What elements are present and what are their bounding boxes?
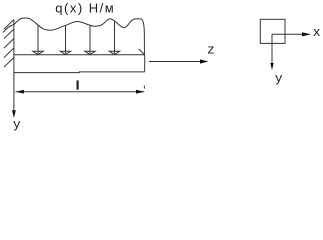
curve end tick at beam corner [139,49,145,55]
z-axis line [151,61,202,63]
z-axis origin dot [149,61,151,63]
svg-text:y: y [13,117,21,132]
z-axis arrowhead [200,59,208,63]
cross-section square [260,19,285,43]
section x-axis arrowhead [302,32,311,36]
svg-text:q(x) Н/м: q(x) Н/м [55,0,115,15]
svg-text:x: x [313,25,321,40]
section y-axis line [271,34,273,63]
dimension arrowhead left [16,90,24,94]
wall hatch 2 [4,29,14,39]
section x-axis line [272,33,304,35]
section y-axis arrowhead [270,63,273,70]
beam top line [14,54,145,56]
y-axis arrowhead (left) [12,110,16,118]
dimension line l [16,91,145,93]
wall hatch 4 [4,48,14,58]
wall line (fixed support, also y-axis) [13,20,15,112]
load arrow 2 [60,26,70,55]
load arrow 1 [33,25,43,54]
distributed load curve q(x) [3,18,144,55]
wall hatch 1 [4,20,14,30]
dimension extension tick right [143,86,145,89]
beam right edge [144,55,146,72]
svg-text:z: z [207,43,215,58]
dimension arrowhead right [136,90,144,94]
load arrow 3 [85,26,95,55]
wall hatch 5 [4,58,14,68]
l label [76,80,78,89]
svg-text:y: y [275,71,283,86]
wall hatch 3 [4,39,14,49]
beam bottom line (with small step) [14,71,145,74]
section inner vertical line [271,34,273,43]
load arrow 4 [109,22,119,55]
